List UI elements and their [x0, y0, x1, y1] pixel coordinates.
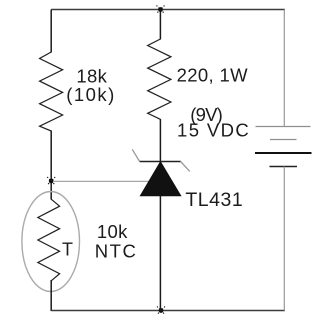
wire bottom [51, 310, 285, 312]
battery BT1 plate 1 long (gray) [256, 126, 311, 128]
battery BT1 plate 4 short (black) [270, 166, 298, 168]
TL431 U1 cathode bar [140, 161, 181, 163]
thermistor RT1 ellipse [22, 192, 80, 292]
svg-text:220, 1W: 220, 1W [177, 64, 249, 85]
wire middle upper [159, 10, 161, 40]
svg-text:TL431: TL431 [185, 189, 243, 211]
TL431 U1 cathode tick left (gray) [132, 149, 139, 161]
TL431 U1 triangle body [140, 162, 180, 196]
wire middle between resistor and TL431 [159, 119, 161, 162]
svg-text:10k: 10k [97, 221, 128, 242]
wire right lower (gray) [283, 167, 285, 311]
svg-text:T: T [62, 240, 73, 260]
wire right upper (gray) [283, 10, 285, 127]
junction left node [47, 177, 55, 185]
wire left lower [50, 280, 52, 311]
wire left upper [50, 10, 52, 53]
wire top [51, 9, 285, 11]
thermistor RT1 zigzag [38, 199, 60, 281]
TL431 U1 cathode tick right (gray) [181, 162, 190, 172]
svg-text:NTC: NTC [95, 240, 138, 261]
battery BT1 plate 2 short (gray) [270, 139, 297, 141]
resistor R2 220 1W [148, 39, 171, 119]
battery BT1 plate 3 long (black) [255, 152, 312, 154]
junction bottom node [157, 307, 165, 315]
wire reference (gray) to TL431 ref pin [53, 180, 150, 182]
svg-text:15 VDC: 15 VDC [177, 119, 250, 140]
wire left middle [50, 131, 52, 200]
svg-text:(10k): (10k) [66, 84, 116, 105]
resistor R1 18k [40, 52, 63, 131]
wire middle lower (anode) [159, 196, 161, 312]
junction top node [157, 6, 165, 14]
